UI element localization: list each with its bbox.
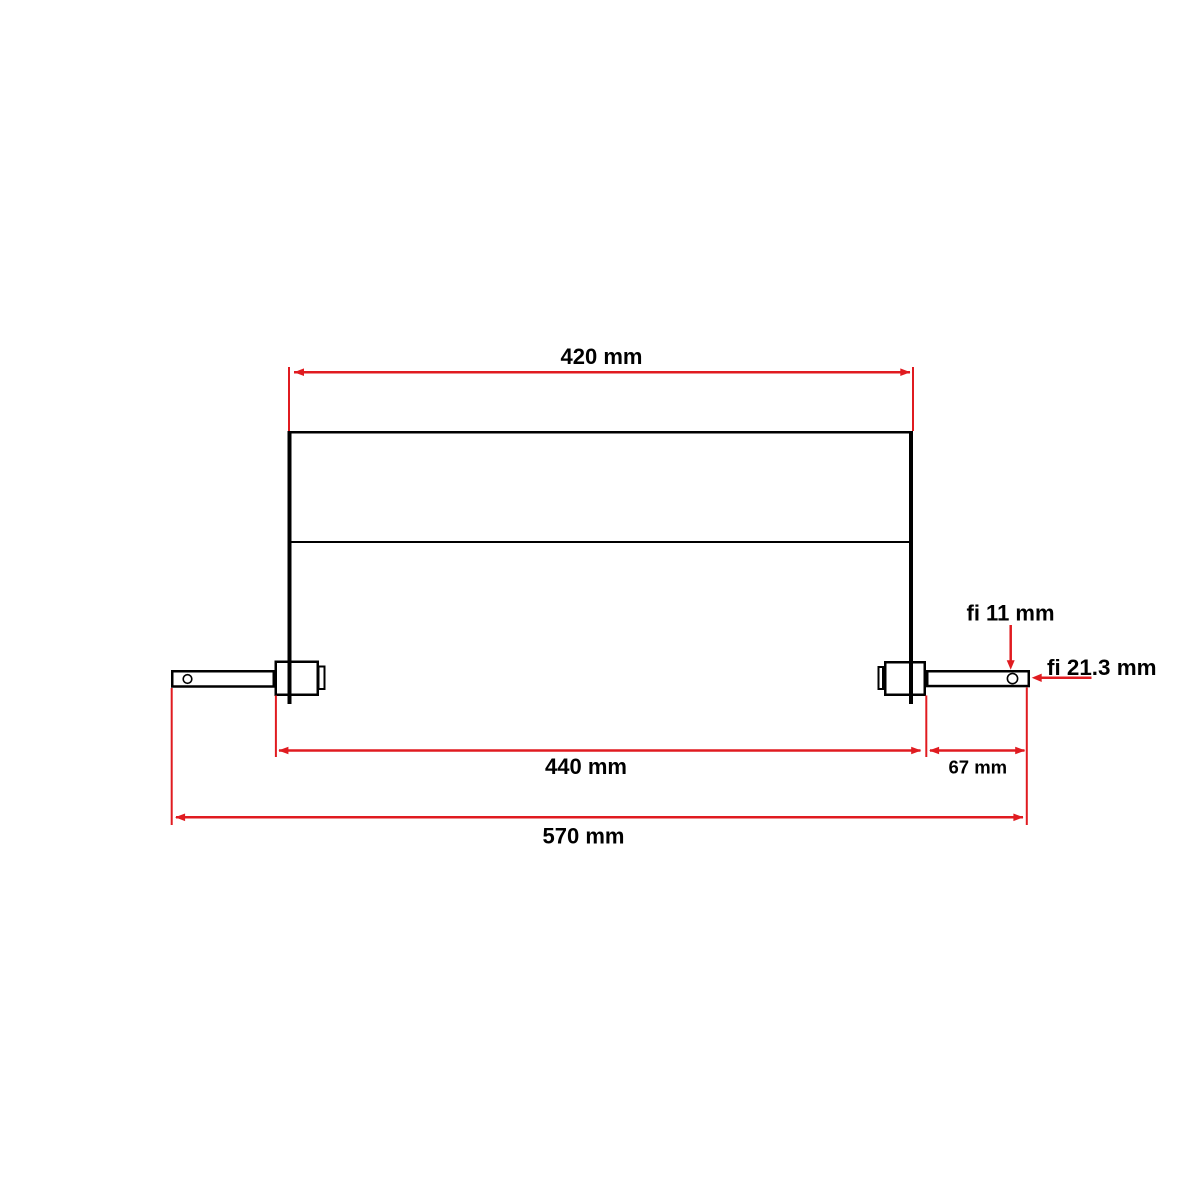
svg-text:420 mm: 420 mm (561, 344, 643, 369)
svg-text:fi 11 mm: fi 11 mm (967, 601, 1055, 626)
svg-text:440 mm: 440 mm (545, 754, 627, 779)
svg-text:67 mm: 67 mm (949, 757, 1008, 778)
svg-text:fi 21.3 mm: fi 21.3 mm (1047, 655, 1157, 680)
svg-text:570 mm: 570 mm (543, 824, 625, 849)
